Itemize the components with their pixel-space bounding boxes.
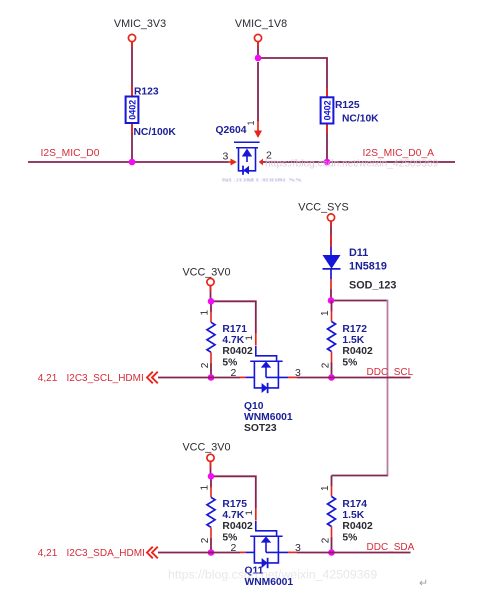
svg-text:VMIC_3V3: VMIC_3V3 xyxy=(114,18,166,30)
svg-text:1.5K: 1.5K xyxy=(342,510,364,521)
svg-text:R0402: R0402 xyxy=(222,346,253,357)
svg-text:VCC_3V0: VCC_3V0 xyxy=(182,442,230,454)
svg-text:0402: 0402 xyxy=(323,100,333,120)
svg-text:SOT23: SOT23 xyxy=(244,423,277,434)
svg-text:2: 2 xyxy=(231,367,237,379)
svg-text:R175: R175 xyxy=(222,499,247,510)
svg-text:SOD_123: SOD_123 xyxy=(349,280,396,292)
svg-text:DDC_SDA: DDC_SDA xyxy=(367,542,415,553)
svg-text:VCC_SYS: VCC_SYS xyxy=(298,201,348,213)
svg-text:2: 2 xyxy=(200,537,211,543)
svg-text:R0402: R0402 xyxy=(342,521,373,532)
svg-text:4,21: 4,21 xyxy=(38,373,58,384)
svg-text:1: 1 xyxy=(244,335,255,340)
svg-text:https://blog.csdn.net/weixin_4: https://blog.csdn.net/weixin_42509369 xyxy=(265,159,439,170)
svg-text:WNM6001: WNM6001 xyxy=(244,412,293,423)
svg-text:R171: R171 xyxy=(222,324,247,335)
svg-text:1: 1 xyxy=(200,310,211,316)
svg-text:R174: R174 xyxy=(342,499,367,510)
svg-text:1: 1 xyxy=(246,120,256,125)
svg-text:R123: R123 xyxy=(134,87,159,98)
svg-text:R0402: R0402 xyxy=(342,346,373,357)
svg-text:0402: 0402 xyxy=(128,100,138,120)
svg-text:R0402: R0402 xyxy=(222,521,253,532)
svg-text:1: 1 xyxy=(200,485,211,491)
svg-text:3: 3 xyxy=(223,151,229,163)
svg-text:4.7K: 4.7K xyxy=(222,335,244,346)
svg-text:R172: R172 xyxy=(342,324,367,335)
svg-text:2: 2 xyxy=(321,537,332,543)
svg-text:https://blog.csdn.net/weixin_4: https://blog.csdn.net/weixin_42509369 xyxy=(168,568,377,582)
svg-text:1: 1 xyxy=(320,310,331,316)
svg-text:Q2604: Q2604 xyxy=(216,125,247,136)
svg-text:VMIC_1V8: VMIC_1V8 xyxy=(235,18,287,30)
svg-text:NC/100K: NC/100K xyxy=(134,127,177,138)
svg-text:3: 3 xyxy=(295,542,301,554)
svg-text:4,21: 4,21 xyxy=(38,548,58,559)
svg-text:4.7K: 4.7K xyxy=(222,510,244,521)
svg-text:Q10: Q10 xyxy=(244,401,264,412)
svg-text:I2C3_SCL_HDMI: I2C3_SCL_HDMI xyxy=(67,373,144,384)
svg-text:NC/10K: NC/10K xyxy=(342,114,379,125)
svg-text:1.5K: 1.5K xyxy=(342,335,364,346)
svg-text:I2C3_SDA_HDMI: I2C3_SDA_HDMI xyxy=(67,548,145,559)
svg-text:I2S_MIC_D0: I2S_MIC_D0 xyxy=(41,148,100,159)
svg-text:5%: 5% xyxy=(342,357,357,368)
svg-text:2: 2 xyxy=(321,362,332,368)
svg-text:1: 1 xyxy=(244,510,255,515)
svg-text:1N5819: 1N5819 xyxy=(349,261,387,273)
svg-text:DDC_SCL: DDC_SCL xyxy=(367,367,414,378)
svg-text:3: 3 xyxy=(295,367,301,379)
svg-text:2: 2 xyxy=(231,542,237,554)
svg-text:D11: D11 xyxy=(349,247,368,259)
svg-text:2: 2 xyxy=(200,362,211,368)
svg-text:I2S_MIC_D0_A: I2S_MIC_D0_A xyxy=(363,148,435,159)
svg-text:↵: ↵ xyxy=(419,578,428,590)
svg-text:R125: R125 xyxy=(335,100,360,111)
svg-text:1: 1 xyxy=(320,485,331,491)
svg-text:5%: 5% xyxy=(342,532,357,543)
svg-text:VCC_3V0: VCC_3V0 xyxy=(182,267,230,279)
